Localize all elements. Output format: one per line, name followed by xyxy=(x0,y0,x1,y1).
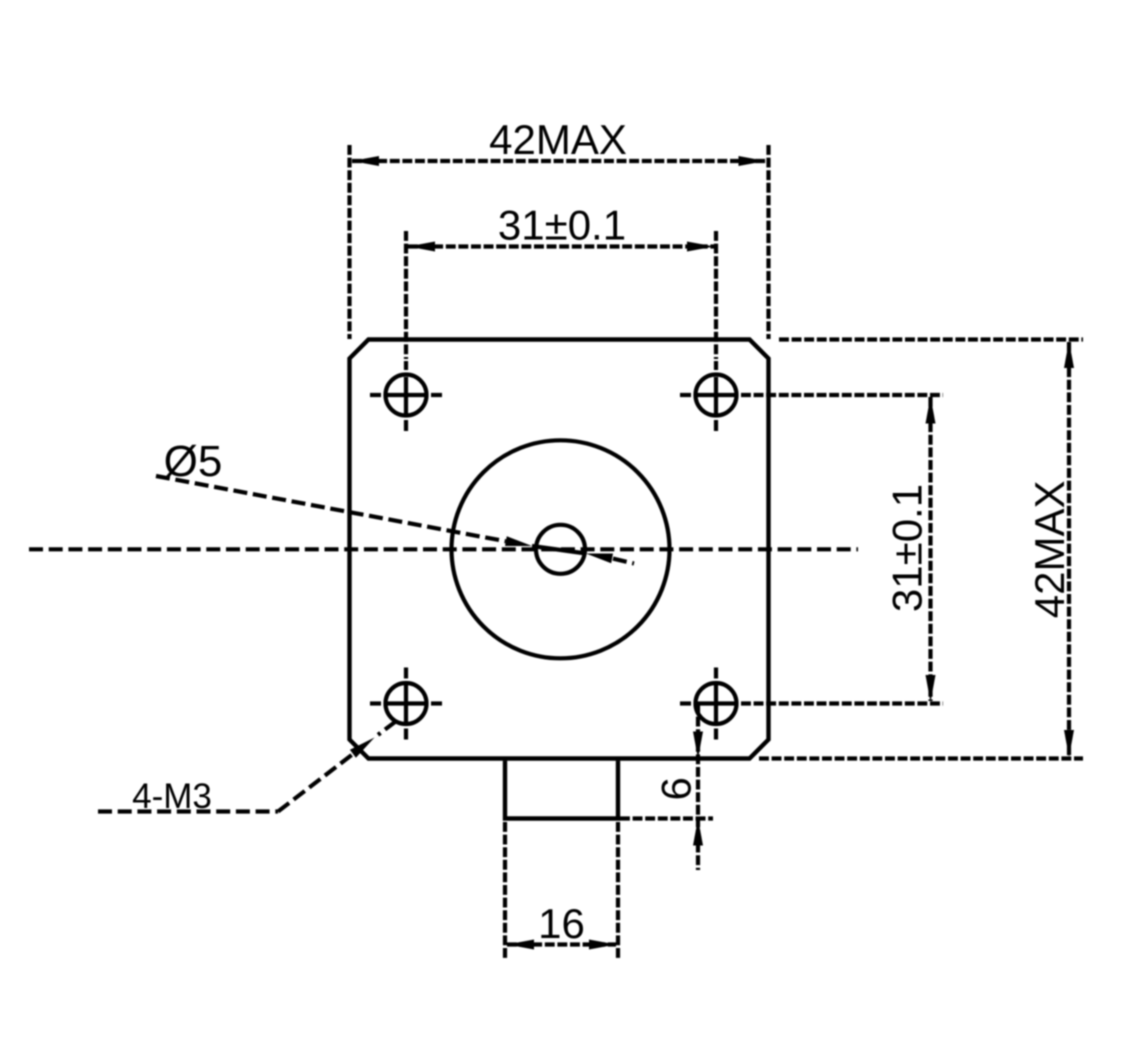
svg-text:31±0.1: 31±0.1 xyxy=(498,202,626,249)
svg-text:4-M3: 4-M3 xyxy=(132,777,212,816)
svg-text:16: 16 xyxy=(538,900,585,947)
svg-text:Ø5: Ø5 xyxy=(164,437,223,486)
svg-text:6: 6 xyxy=(653,777,700,800)
svg-text:42MAX: 42MAX xyxy=(1026,481,1073,619)
svg-text:31±0.1: 31±0.1 xyxy=(884,484,931,612)
svg-text:42MAX: 42MAX xyxy=(489,116,627,163)
